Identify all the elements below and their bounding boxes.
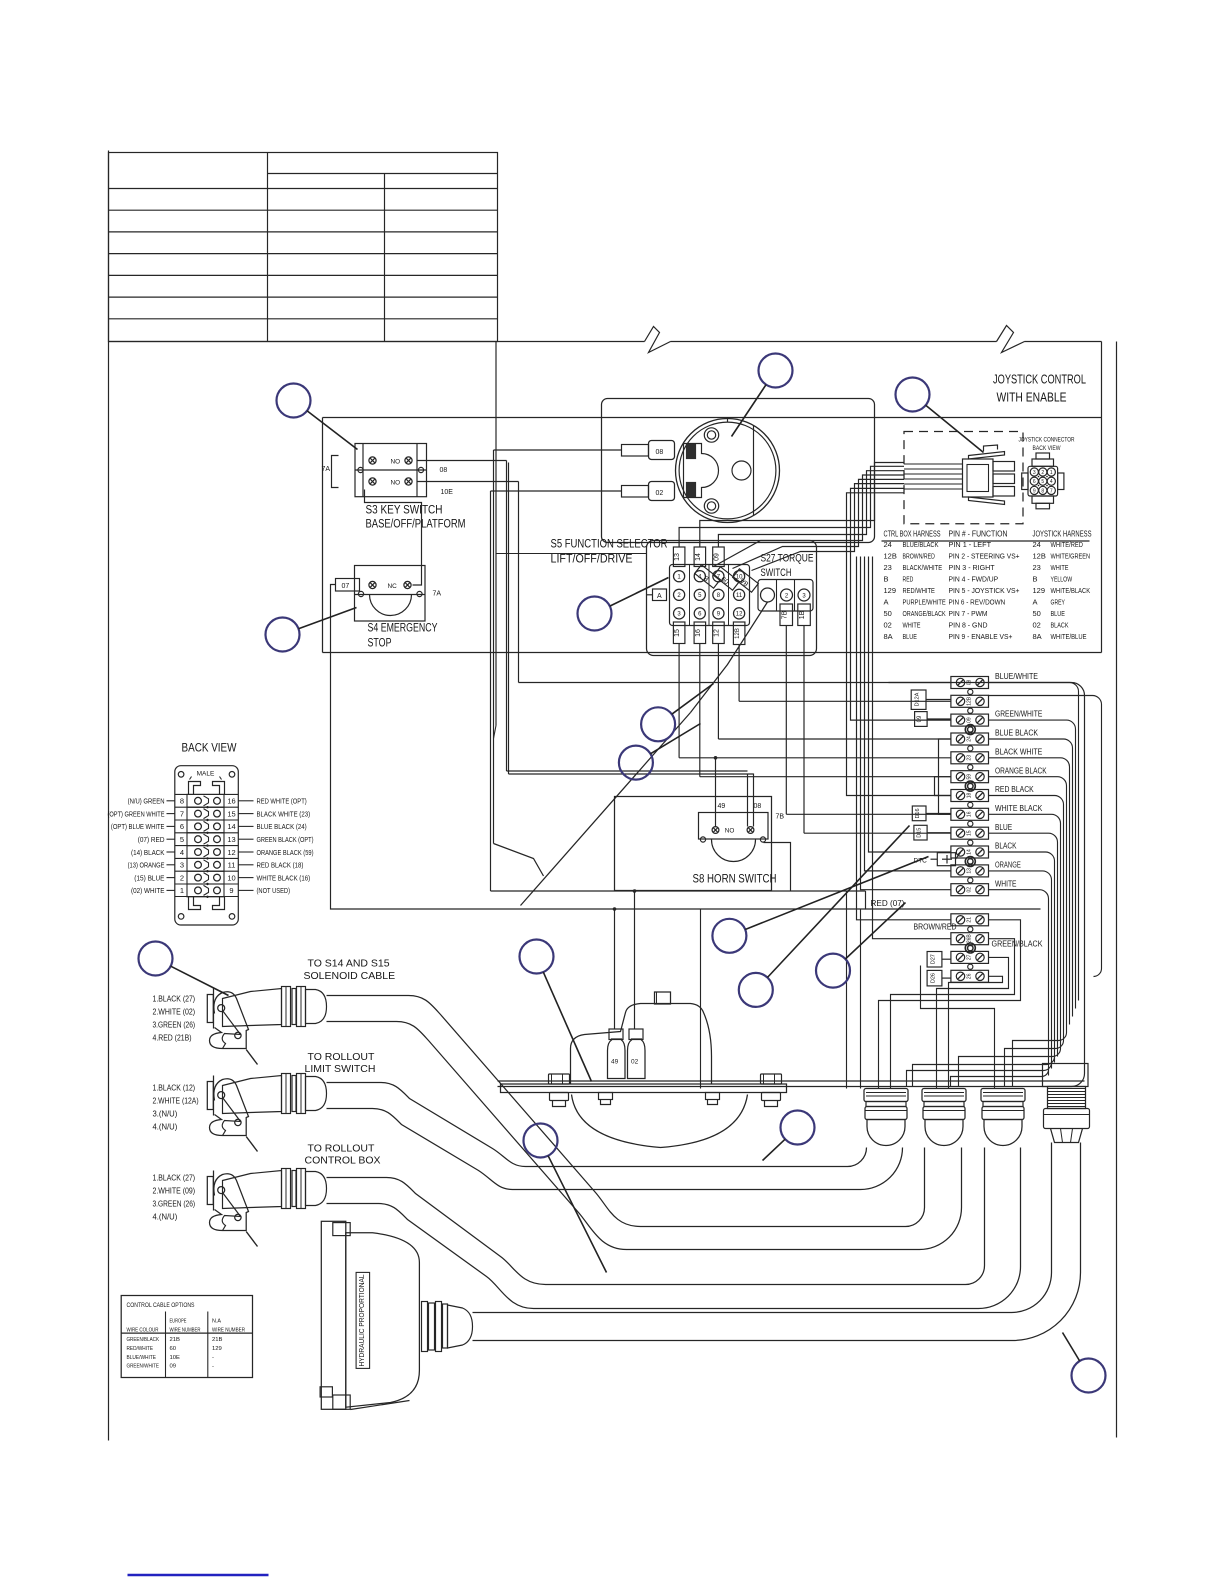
svg-text:BACK VIEW: BACK VIEW: [182, 743, 237, 755]
svg-text:8A: 8A: [1033, 632, 1042, 641]
wire: S3 bottom contact to bus, tag 10E: [417, 481, 519, 483]
svg-text:6: 6: [180, 822, 184, 831]
joystick connector pin 3: [1030, 468, 1038, 476]
jumper ring at TBL2-TBL3: [965, 943, 975, 953]
wire: trunk diagonal stub to S8 area: [494, 844, 544, 877]
wire: S5 bottom tags down to lower bus: [678, 644, 680, 758]
callout balloon mid-left upper: [641, 707, 675, 741]
svg-text:BLACK WHITE: BLACK WHITE: [995, 747, 1042, 756]
svg-text:1B: 1B: [799, 610, 806, 619]
svg-text:BROWN/RED: BROWN/RED: [903, 552, 936, 561]
wire bundle: trunk verticals descending to terminal strip: [851, 488, 951, 720]
svg-text:BLACK: BLACK: [1051, 621, 1069, 630]
label: ORANGE BLACK (59) (12): [238, 851, 253, 853]
svg-text:16: 16: [966, 811, 972, 817]
svg-text:PIN 9 - ENABLE VS+: PIN 9 - ENABLE VS+: [949, 632, 1013, 641]
callout balloon at S5 rotary: [759, 354, 793, 388]
svg-text:3: 3: [180, 861, 184, 870]
label: 09 tag: [915, 712, 928, 727]
svg-text:WHITE/BLACK: WHITE/BLACK: [1051, 586, 1091, 595]
svg-text:N.A: N.A: [212, 1319, 221, 1325]
terminal block TB7 wire 18: [951, 790, 989, 802]
switch S5 rotary body (round): [676, 419, 780, 523]
svg-text:49: 49: [611, 1059, 619, 1066]
svg-text:S4 EMERGENCY: S4 EMERGENCY: [368, 623, 438, 635]
svg-text:02: 02: [631, 1059, 639, 1066]
horn mount bolt left: [549, 1074, 570, 1084]
svg-text:SOLENOID CABLE: SOLENOID CABLE: [304, 970, 396, 982]
label: BLACK WHITE (23) (15): [238, 813, 253, 815]
svg-text:CONTROL BOX: CONTROL BOX: [305, 1155, 381, 1167]
label: S5 diagonal wire tag 09: [714, 567, 740, 590]
svg-text:21B: 21B: [170, 1337, 181, 1343]
svg-text:BLACK: BLACK: [995, 842, 1017, 851]
svg-text:(OPT) GREEN WHITE: (OPT) GREEN WHITE: [108, 809, 165, 818]
joystick connector dashed outline box: [904, 432, 1023, 524]
svg-text:BLACK/WHITE: BLACK/WHITE: [903, 563, 943, 572]
svg-text:GREEN BLACK (OPT): GREEN BLACK (OPT): [257, 835, 314, 844]
svg-text:BLUE: BLUE: [995, 823, 1012, 832]
junction dots: [613, 907, 617, 911]
svg-text:WHITE BLACK (16): WHITE BLACK (16): [257, 873, 311, 882]
callout balloon at control box upper: [712, 919, 746, 953]
svg-text:(NOT USED): (NOT USED): [257, 886, 291, 895]
svg-text:WHITE: WHITE: [1051, 563, 1069, 572]
svg-text:23: 23: [966, 755, 972, 761]
wire: S27 tags down to lower bus: [785, 626, 787, 815]
svg-text:4.(N/U): 4.(N/U): [153, 1123, 178, 1132]
svg-text:PIN # - FUNCTION: PIN # - FUNCTION: [949, 530, 1008, 539]
svg-text:YELLOW: YELLOW: [1051, 575, 1073, 584]
svg-text:6: 6: [1033, 479, 1036, 485]
svg-text:WHITE/RED: WHITE/RED: [1051, 540, 1084, 549]
svg-text:4: 4: [180, 848, 184, 857]
cable gland rings: [282, 987, 291, 1027]
svg-text:BLUE: BLUE: [1051, 609, 1065, 618]
S5 terminal 8: [713, 589, 724, 600]
terminal block TB9 wire 15: [951, 827, 989, 839]
svg-text:JOYSTICK CONNECTOR: JOYSTICK CONNECTOR: [1019, 437, 1075, 444]
connector pin row 5/13: [175, 832, 239, 834]
svg-text:50: 50: [1033, 609, 1041, 618]
connector pin row 3/11: [175, 857, 239, 859]
label: S5 wire tag 09: [713, 547, 725, 567]
svg-text:7B: 7B: [776, 814, 785, 821]
svg-text:1.BLACK (12): 1.BLACK (12): [153, 1084, 196, 1093]
switch S27 torque switch body: [758, 580, 813, 612]
svg-text:4.RED (21B): 4.RED (21B): [153, 1034, 192, 1043]
svg-text:CTRL BOX HARNESS: CTRL BOX HARNESS: [884, 530, 941, 539]
terminal block TB4 wire 24: [951, 733, 989, 745]
svg-text:D26: D26: [931, 973, 937, 983]
cable assembly clamp bracket: [207, 1082, 213, 1110]
svg-text:8: 8: [1041, 488, 1044, 494]
terminal block TB2 wire 12B: [951, 695, 989, 707]
svg-text:BLUE/BLACK: BLUE/BLACK: [903, 540, 939, 549]
wire: left jumper TB4-TB8: [939, 739, 951, 814]
callout balloon at horn bowl: [781, 1111, 815, 1145]
cable gland rings: [282, 1169, 291, 1209]
svg-text:129: 129: [212, 1346, 222, 1352]
wire: S8 right side to bus: [764, 843, 791, 892]
wire: right-side elbows from terminal labels down to box: [989, 683, 1079, 1001]
cable gland G2: [922, 1089, 966, 1102]
svg-text:21B: 21B: [212, 1337, 223, 1343]
wire: sub-frame left edge: [322, 418, 324, 653]
connector latch bottom: [189, 897, 201, 910]
wire bundle: feeds to S5 diagonal tags: [714, 475, 905, 567]
hydraulic proportional valve box mounting plate: [321, 1221, 346, 1409]
svg-text:S27 TORQUE: S27 TORQUE: [761, 553, 814, 565]
plug latch top: [969, 452, 1005, 460]
wire: bundle with hook end: [989, 696, 1102, 977]
connector pin row 8/16: [175, 793, 239, 795]
svg-text:12B: 12B: [1033, 552, 1046, 561]
svg-text:3.GREEN (26): 3.GREEN (26): [153, 1200, 196, 1209]
label: S5 wire tag 13: [673, 547, 685, 567]
svg-text:15: 15: [227, 809, 235, 818]
label: D27 tag: [927, 952, 942, 968]
svg-text:B: B: [884, 575, 889, 584]
S27 terminal 2: [781, 589, 793, 601]
svg-text:STOP: STOP: [368, 638, 392, 650]
svg-text:RED WHITE (OPT): RED WHITE (OPT): [257, 797, 307, 806]
label: S5 bottom wire tag 12B: [733, 622, 745, 645]
label: D15 tag: [914, 825, 927, 840]
callout balloon at control box lower: [739, 973, 773, 1007]
wire: 08 spade to left trunk: [494, 449, 622, 451]
svg-text:GREEN/BLACK: GREEN/BLACK: [992, 940, 1044, 949]
joystick connector pin 2: [1039, 468, 1047, 476]
S5 rotary flat chord: [753, 426, 755, 516]
terminal block TBL1 wire 21: [951, 914, 989, 926]
svg-text:8: 8: [180, 797, 184, 806]
svg-text:15: 15: [674, 629, 681, 637]
svg-text:18: 18: [966, 793, 972, 799]
svg-text:LIFT/OFF/DRIVE: LIFT/OFF/DRIVE: [551, 554, 633, 566]
diode module at terminal strip: [937, 853, 955, 866]
svg-text:A: A: [884, 598, 889, 607]
svg-text:BLUE/WHITE: BLUE/WHITE: [127, 1355, 157, 1361]
terminal block TB6 wire 59: [951, 771, 989, 783]
label: S5 diagonal wire tag 8A: [733, 569, 759, 592]
mount plate line through box: [498, 1080, 1085, 1082]
callout balloon at S4: [266, 618, 300, 652]
svg-text:S8 HORN SWITCH: S8 HORN SWITCH: [693, 874, 777, 886]
terminal block TB3 wire 09: [951, 714, 989, 726]
svg-text:WHITE BLACK: WHITE BLACK: [995, 804, 1043, 813]
horn bowl below plate: [572, 1095, 748, 1148]
wire: joystick-control sub-frame right edge: [1101, 342, 1103, 653]
label: S5 diagonal wire tag B: [695, 565, 721, 588]
wire: sheet top border with break symbols: [109, 341, 645, 343]
wire: tag links to blocks: [926, 699, 951, 701]
svg-text:23: 23: [1033, 563, 1041, 572]
wire: bus line y=890: [509, 890, 866, 892]
terminal block TBL2 wire 26B: [951, 933, 989, 945]
svg-text:HYDRAULIC PROPORTIONAL: HYDRAULIC PROPORTIONAL: [357, 1275, 366, 1367]
label: S5 left wire tag A: [653, 589, 667, 601]
svg-text:PIN 4 - FWD/UP: PIN 4 - FWD/UP: [949, 575, 999, 584]
svg-text:JOYSTICK HARNESS: JOYSTICK HARNESS: [1033, 530, 1092, 539]
cable ferrule tip: [306, 1172, 327, 1206]
svg-text:24: 24: [966, 736, 972, 742]
S5 terminal 4: [694, 571, 705, 582]
svg-text:S3 KEY SWITCH: S3 KEY SWITCH: [366, 505, 443, 517]
svg-text:14: 14: [966, 849, 972, 855]
svg-text:ORANGE BLACK (59): ORANGE BLACK (59): [257, 848, 314, 857]
svg-text:GREEN/BLACK: GREEN/BLACK: [127, 1337, 160, 1343]
S5 terminal 12: [734, 608, 745, 619]
svg-text:WITH ENABLE: WITH ENABLE: [997, 391, 1067, 405]
svg-text:WHITE/GREEN: WHITE/GREEN: [1051, 552, 1091, 561]
callout balloon at S3: [277, 384, 311, 418]
terminal block TB1 wire 08: [951, 677, 989, 689]
svg-text:D27: D27: [931, 954, 937, 964]
wire: trunk from S3 top contact to S8: [507, 770, 748, 772]
svg-text:BLUE BLACK (24): BLUE BLACK (24): [257, 822, 307, 831]
cable connector barrel: [223, 1171, 282, 1209]
svg-text:RED BLACK (18): RED BLACK (18): [257, 861, 304, 870]
svg-text:15: 15: [966, 830, 972, 836]
cable ferrule tip: [306, 990, 327, 1024]
svg-text:(13) ORANGE: (13) ORANGE: [128, 861, 165, 870]
S5 terminal 2: [674, 589, 685, 600]
svg-text:2: 2: [180, 873, 184, 882]
cable connector barrel: [223, 1076, 282, 1114]
wire: secondary pair to terminal strip: [508, 463, 510, 775]
svg-text:BLUE BLACK: BLUE BLACK: [995, 729, 1039, 738]
wire: cable A1 to gland G2: [327, 996, 925, 1227]
svg-text:5: 5: [1041, 479, 1044, 485]
wire: horn 02 terminal up to bus: [634, 891, 636, 1029]
svg-text:13: 13: [674, 553, 681, 561]
svg-text:08: 08: [656, 449, 664, 456]
svg-text:RED (07): RED (07): [871, 899, 905, 908]
svg-text:7B: 7B: [781, 610, 788, 619]
wire bundle: joystick harness staircase elbows: [700, 463, 904, 548]
svg-text:7: 7: [1050, 488, 1053, 494]
svg-text:A: A: [1033, 598, 1038, 607]
wire: sheet left border: [108, 151, 110, 1441]
terminal block TB10 wire 14: [951, 846, 989, 858]
svg-text:129: 129: [1033, 586, 1046, 595]
cable gland rings: [282, 1074, 291, 1114]
label: GREEN BLACK (OPT) (13): [238, 838, 253, 840]
wire: sub-frame bottom: [323, 652, 1102, 654]
svg-text:4: 4: [1050, 479, 1053, 485]
svg-text:12B: 12B: [735, 628, 741, 639]
plug latch bottom: [969, 497, 1005, 505]
wire: sheet right border: [1116, 342, 1118, 1438]
svg-text:PIN 1 - LEFT: PIN 1 - LEFT: [949, 540, 992, 549]
joystick connector pin 7: [1047, 486, 1055, 494]
svg-text:2.WHITE (09): 2.WHITE (09): [153, 1187, 196, 1196]
terminal block TB12 wire 02: [951, 884, 989, 896]
cable gland G1: [864, 1089, 908, 1102]
svg-text:PIN 5 - JOYSTICK VS+: PIN 5 - JOYSTICK VS+: [949, 586, 1020, 595]
svg-text:11: 11: [228, 861, 236, 870]
svg-text:D15: D15: [917, 828, 923, 838]
label: D26 tag: [927, 970, 942, 986]
label: S5 bottom wire tag 15: [673, 622, 685, 644]
svg-text:JOYSTICK CONTROL: JOYSTICK CONTROL: [993, 373, 1086, 387]
label: WHITE BLACK (16) (10): [238, 877, 253, 879]
svg-text:02: 02: [884, 621, 892, 630]
svg-text:BLUE/WHITE: BLUE/WHITE: [995, 672, 1038, 681]
label: 07 tag at S4: [336, 579, 360, 592]
svg-text:11: 11: [736, 593, 743, 599]
svg-text:D16: D16: [915, 808, 921, 818]
control cable options table: [121, 1296, 252, 1378]
plate box holding S5 terminals and S27: [647, 541, 817, 656]
plug pins: [993, 462, 1015, 472]
svg-text:GREEN/WHITE: GREEN/WHITE: [127, 1364, 160, 1370]
switch S4 emergency stop body: [355, 566, 426, 622]
svg-text:3.(N/U): 3.(N/U): [153, 1110, 178, 1119]
control box enclosure top/right walls: [498, 683, 1085, 1087]
svg-text:PIN 3 - RIGHT: PIN 3 - RIGHT: [949, 563, 996, 572]
svg-text:(OPT) BLUE WHITE: (OPT) BLUE WHITE: [111, 822, 165, 831]
svg-text:3: 3: [1033, 470, 1036, 476]
wire: S3 top contact to bus, tag 08: [417, 460, 507, 462]
svg-text:BASE/OFF/PLATFORM: BASE/OFF/PLATFORM: [366, 519, 466, 531]
callout balloon at joystick plug: [896, 378, 930, 412]
svg-text:1.BLACK (27): 1.BLACK (27): [153, 995, 196, 1004]
callout balloon at G4 cable: [1072, 1359, 1106, 1393]
title block table (empty revision table): [109, 153, 498, 342]
svg-text:ORANGE: ORANGE: [995, 861, 1021, 870]
svg-text:WHITE: WHITE: [903, 621, 921, 630]
wire: plug cable conductors: [904, 463, 963, 465]
cable gland G4 (large, hydraulic): [1043, 1064, 1089, 1087]
callout balloon at horn plate: [520, 940, 554, 974]
S5 terminal 1: [674, 571, 685, 582]
svg-text:4.(N/U): 4.(N/U): [153, 1213, 178, 1222]
svg-text:02: 02: [656, 490, 664, 497]
label: (NOT USED) (9): [238, 889, 253, 891]
svg-text:24: 24: [1033, 540, 1041, 549]
label: D16 tag: [912, 806, 926, 821]
S27 terminal 1 (plain): [761, 588, 775, 602]
wire: cable A2 to gland G1: [327, 1083, 867, 1167]
callout balloon at lower cables: [524, 1124, 558, 1158]
svg-text:7A: 7A: [322, 466, 331, 473]
wire: extra trunk verticals to lower strip rows: [869, 557, 951, 853]
terminal block TBL3 wire 27: [951, 951, 989, 963]
connector pin row 7/15: [175, 806, 239, 808]
wire: S4 07 tag down-left then to horn 49 terminal: [331, 585, 615, 1030]
switch S8 horn switch body: [699, 813, 769, 840]
joystick connector pin 1: [1047, 468, 1055, 476]
label: S5 wire tag 14: [694, 547, 706, 567]
horn device mounting plate: [501, 1084, 787, 1093]
svg-text:16: 16: [695, 629, 702, 637]
svg-text:7A: 7A: [433, 591, 442, 598]
cable connector barrel: [223, 989, 282, 1027]
svg-text:GREEN/WHITE: GREEN/WHITE: [995, 710, 1042, 719]
svg-text:1.BLACK (27): 1.BLACK (27): [153, 1174, 196, 1183]
svg-text:59: 59: [966, 774, 972, 780]
svg-text:BLUE: BLUE: [903, 632, 917, 641]
terminal block TB5 wire 23: [951, 752, 989, 764]
joystick plug connector body: [963, 459, 994, 497]
jumper ring at TB3-TB4: [965, 725, 975, 735]
terminal block TB11 wire 13: [951, 865, 989, 877]
svg-text:1: 1: [180, 886, 184, 895]
S5 rotary terminal plate: [684, 444, 719, 498]
wire: sub-frame divider below title: [323, 417, 1102, 419]
wire: S27 terminal 1 long diagonal down-left: [691, 602, 768, 713]
svg-text:1: 1: [1050, 470, 1053, 476]
svg-text:CONTROL CABLE OPTIONS: CONTROL CABLE OPTIONS: [127, 1302, 195, 1309]
svg-text:BROWN/RED: BROWN/RED: [914, 923, 957, 932]
svg-text:PURPLE/WHITE: PURPLE/WHITE: [903, 598, 946, 607]
svg-text:21: 21: [966, 917, 972, 923]
terminal block TBL4 wire 26: [951, 970, 989, 982]
svg-text:(15) BLUE: (15) BLUE: [134, 873, 164, 882]
svg-text:10: 10: [227, 873, 235, 882]
svg-text:12B: 12B: [884, 552, 897, 561]
footer link line: [128, 1574, 269, 1576]
svg-text:14: 14: [695, 553, 702, 561]
terminal block TB8 wire 16: [951, 808, 989, 820]
joystick connector pin 5: [1039, 477, 1047, 485]
svg-text:WIRE NUMBER: WIRE NUMBER: [212, 1328, 245, 1334]
svg-text:WIRE NUMBER: WIRE NUMBER: [170, 1328, 201, 1334]
S3 contact screws: [369, 457, 376, 464]
svg-text:9: 9: [229, 886, 233, 895]
svg-text:WIRE COLOUR: WIRE COLOUR: [127, 1328, 159, 1334]
horn terminal 02: [628, 1039, 646, 1079]
svg-text:26B: 26B: [966, 934, 972, 944]
svg-text:08: 08: [440, 467, 448, 474]
svg-text:NO: NO: [391, 458, 401, 465]
label: RED BLACK (18) (11): [238, 864, 253, 866]
label: BLUE BLACK (24) (14): [238, 825, 253, 827]
svg-text:NO: NO: [725, 828, 735, 835]
S5 rotary mounting screws: [704, 428, 718, 442]
svg-text:02: 02: [1033, 621, 1041, 630]
S5 terminal 6: [694, 608, 705, 619]
svg-text:-: -: [212, 1364, 214, 1370]
svg-text:10E: 10E: [170, 1355, 181, 1361]
svg-text:PIN 6 - REV/DOWN: PIN 6 - REV/DOWN: [949, 598, 1006, 607]
svg-text:09: 09: [917, 715, 923, 722]
svg-text:BLACK WHITE (23): BLACK WHITE (23): [257, 809, 311, 818]
svg-text:(07) RED: (07) RED: [138, 835, 165, 844]
svg-text:2: 2: [1041, 470, 1044, 476]
svg-text:26: 26: [966, 973, 972, 979]
svg-text:ORANGE/BLACK: ORANGE/BLACK: [903, 609, 946, 618]
svg-text:WHITE: WHITE: [995, 879, 1017, 888]
horn top stub: [655, 992, 671, 1004]
svg-text:TO ROLLOUT: TO ROLLOUT: [308, 1051, 375, 1063]
svg-text:27: 27: [966, 954, 972, 960]
svg-text:(14) BLACK: (14) BLACK: [131, 848, 165, 857]
svg-text:LIMIT SWITCH: LIMIT SWITCH: [305, 1063, 376, 1075]
svg-text:RED/WHITE: RED/WHITE: [127, 1346, 154, 1352]
wire: left jumper TB6-TB7: [935, 777, 951, 796]
svg-text:(N/U) GREEN: (N/U) GREEN: [128, 797, 165, 806]
label: D12A tag: [911, 690, 926, 709]
S5 terminal 5: [694, 589, 705, 600]
svg-text:3.GREEN (26): 3.GREEN (26): [153, 1021, 196, 1030]
wire: left trunk from top border: [495, 342, 497, 726]
wire: bus to lower right: [615, 908, 866, 910]
svg-text:02: 02: [966, 887, 972, 893]
S5 terminal 7: [713, 571, 724, 582]
